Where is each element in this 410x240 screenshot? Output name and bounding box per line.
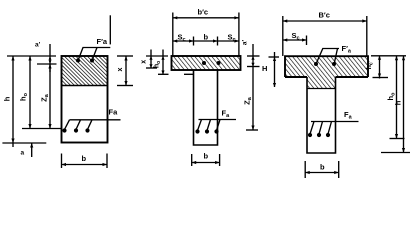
svg-text:x: x: [141, 60, 148, 64]
svg-text:ho: ho: [386, 92, 397, 101]
svg-text:b: b: [320, 163, 325, 172]
svg-text:Za: Za: [40, 93, 51, 102]
svg-text:H: H: [262, 64, 267, 73]
svg-text:B′c: B′c: [319, 11, 330, 20]
svg-text:h: h: [3, 96, 12, 101]
svg-text:b: b: [204, 33, 209, 42]
svg-text:Fa: Fa: [109, 108, 119, 117]
svg-text:a: a: [21, 150, 25, 157]
svg-text:x: x: [117, 67, 124, 71]
svg-text:Sc: Sc: [292, 31, 300, 42]
svg-text:h: h: [394, 100, 403, 105]
svg-text:ho: ho: [19, 92, 30, 101]
svg-text:b: b: [82, 154, 87, 163]
svg-text:F′a: F′a: [97, 37, 108, 46]
svg-text:a′: a′: [242, 39, 249, 45]
svg-text:Fa: Fa: [222, 109, 231, 120]
svg-text:Za: Za: [243, 96, 254, 105]
svg-text:Sc: Sc: [178, 33, 186, 44]
svg-text:Fa: Fa: [344, 110, 353, 121]
svg-text:F′a: F′a: [342, 44, 352, 55]
svg-text:b: b: [204, 152, 209, 161]
svg-text:ho: ho: [154, 61, 163, 68]
svg-text:a′: a′: [35, 42, 41, 49]
svg-text:b′c: b′c: [198, 8, 209, 17]
svg-text:Sc: Sc: [228, 33, 236, 44]
